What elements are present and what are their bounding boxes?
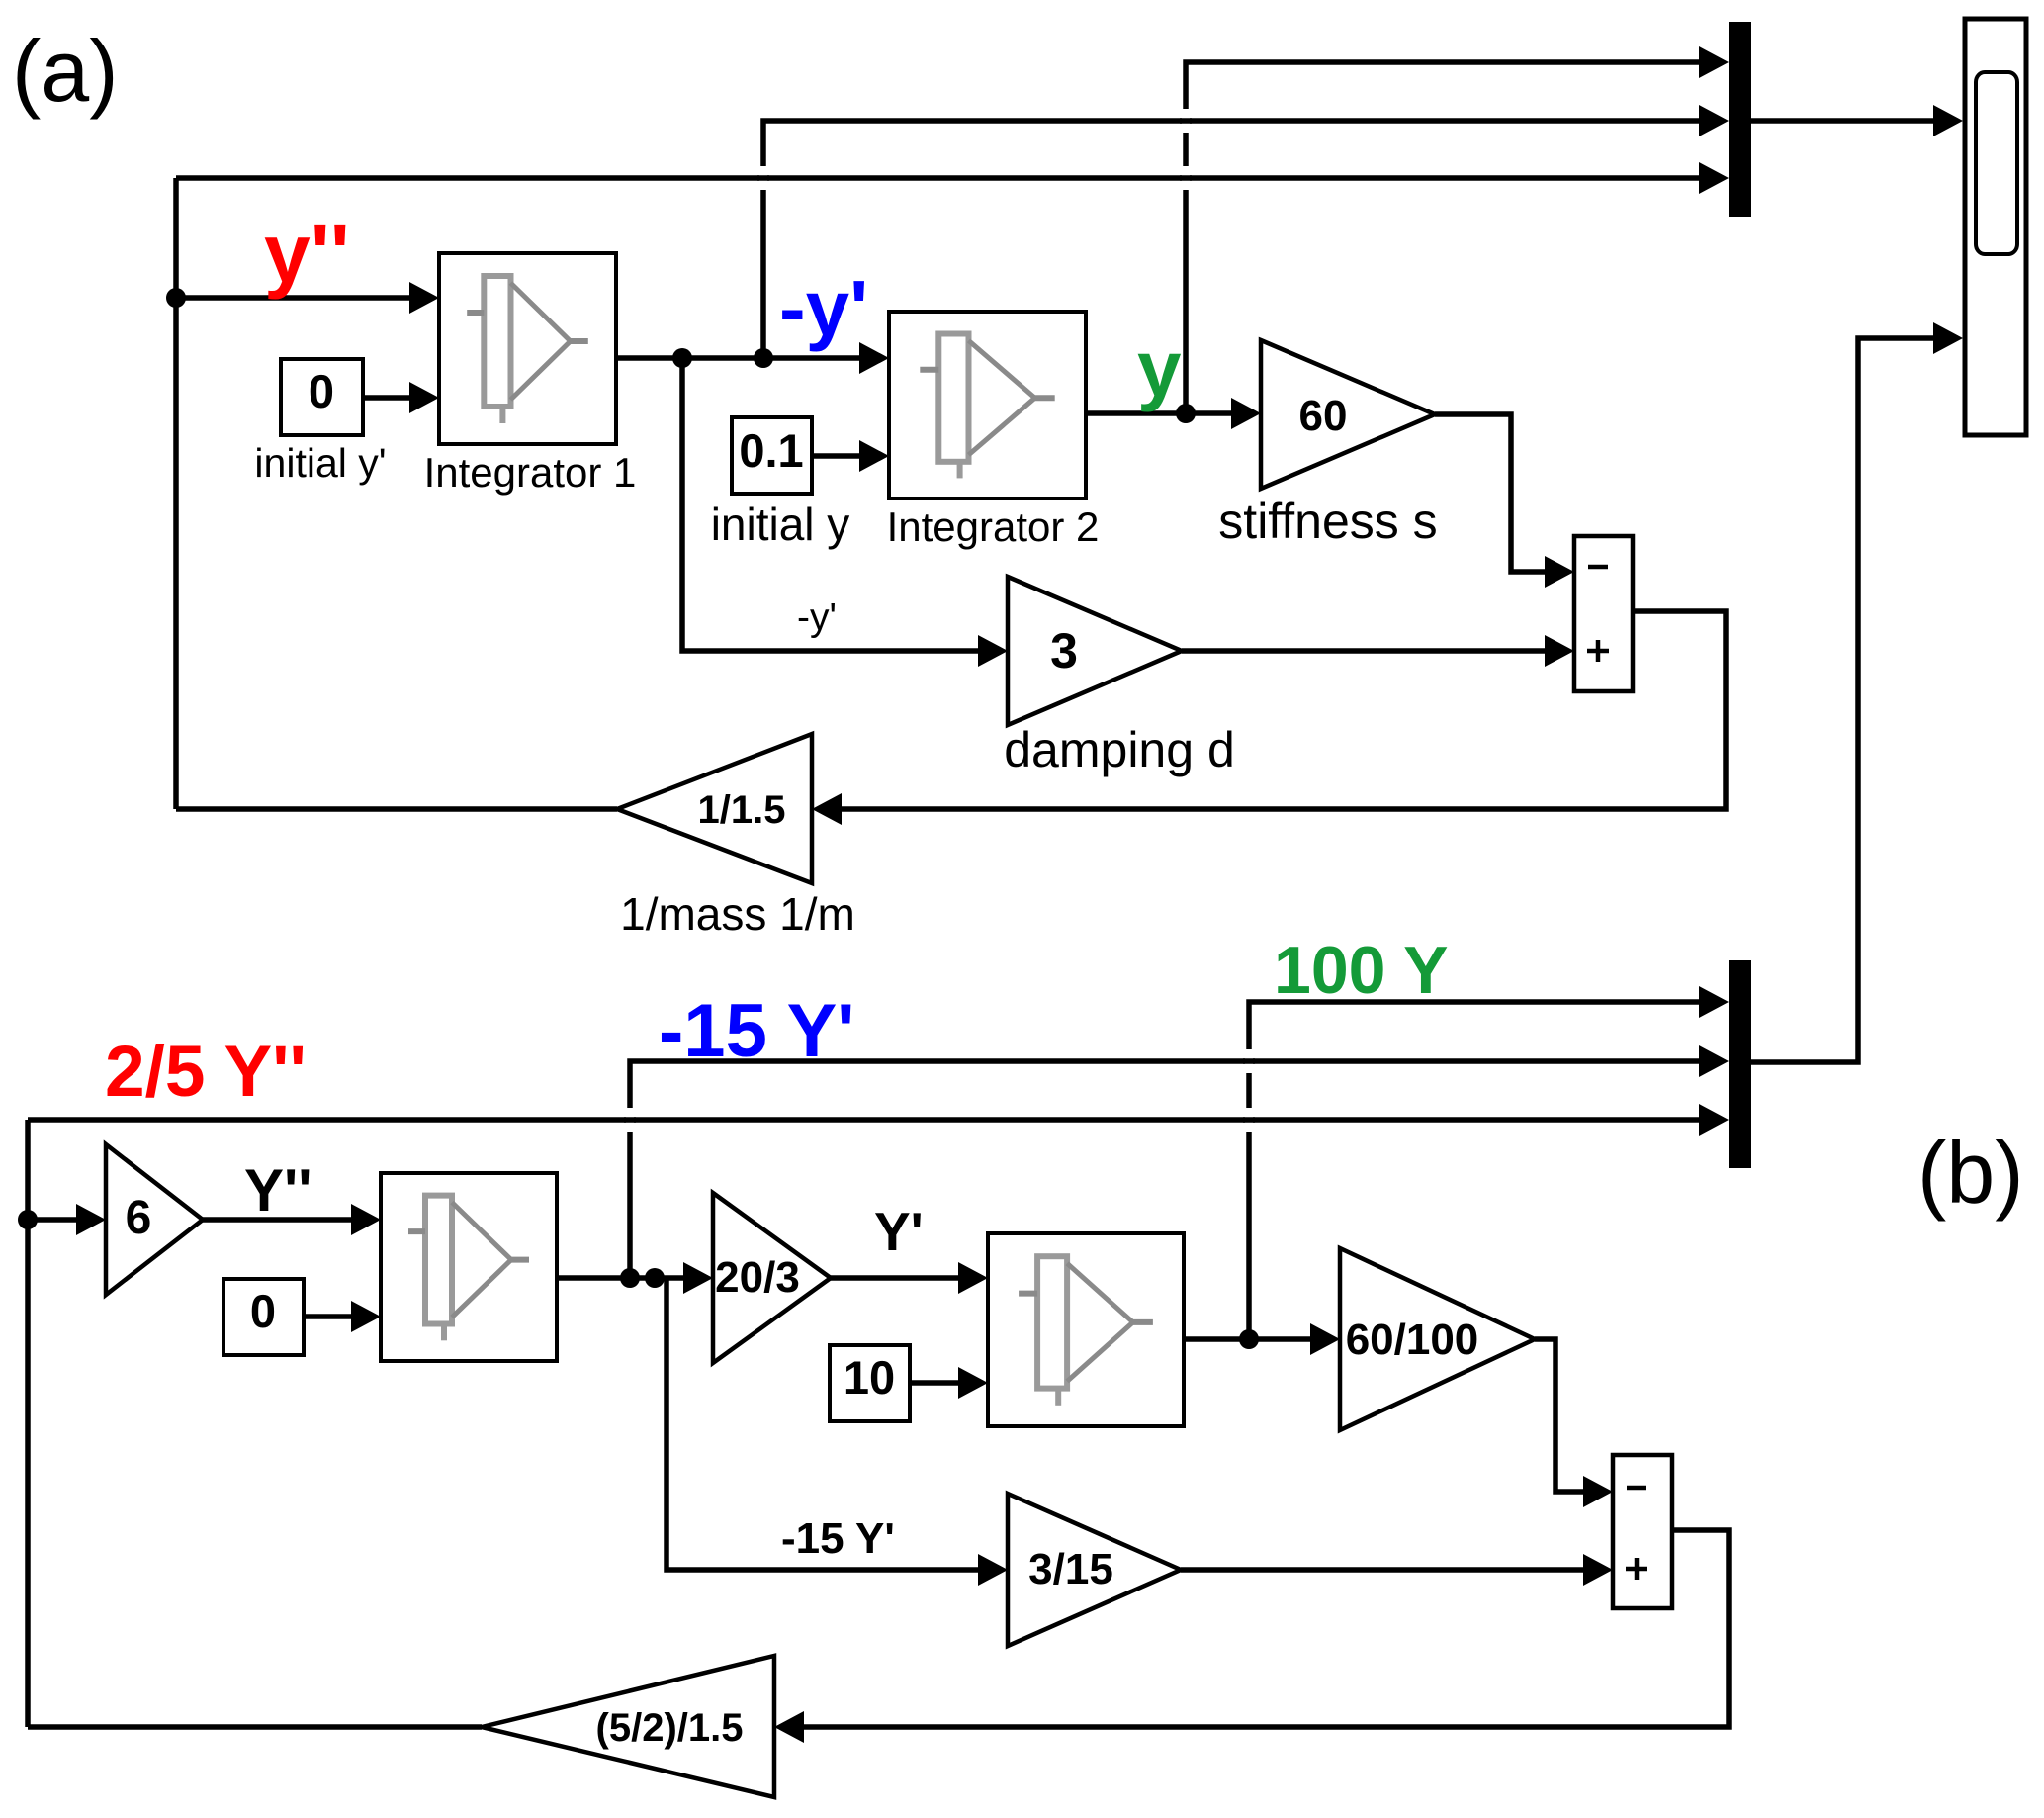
- wire 60 output to sum minus: [1435, 414, 1545, 572]
- svg-text:stiffness s: stiffness s: [1218, 494, 1437, 549]
- constant block 0 (b): [223, 1279, 304, 1355]
- wire 60/100 output to sum (b) minus: [1535, 1339, 1583, 1492]
- svg-text:0: 0: [309, 365, 334, 417]
- mux 1: [1729, 22, 1751, 217]
- gain block 3/15: [1008, 1494, 1181, 1646]
- wire sum (a) out feedback to 1/mass: [842, 611, 1726, 809]
- sum block (a): [1574, 536, 1633, 691]
- svg-text:3/15: 3/15: [1028, 1545, 1113, 1593]
- wire hop -15Y' vertical over 2/5Y'' run: [626, 1108, 634, 1132]
- svg-text:60: 60: [1299, 392, 1348, 440]
- node junction -15Y' (down): [645, 1268, 665, 1288]
- gain block (5/2)/1.5: [482, 1656, 774, 1797]
- svg-text:(b): (b): [1917, 1124, 2024, 1222]
- svg-text:Integrator 1: Integrator 1: [424, 449, 637, 496]
- wire 3 output to sum plus: [1182, 648, 1545, 654]
- wire y up to mux1 in1: [1186, 62, 1699, 413]
- svg-text:initial y': initial y': [254, 440, 386, 486]
- gain block 3 (damping): [1008, 577, 1182, 725]
- wire 1/mass output to left vertical: [176, 806, 617, 812]
- integrator block 4: [988, 1233, 1184, 1426]
- wire Integrator 1 output: [616, 355, 859, 361]
- wire 0.1 to Integrator 2 IC input: [813, 453, 859, 459]
- svg-text:100 Y: 100 Y: [1274, 933, 1448, 1008]
- svg-text:3: 3: [1050, 623, 1078, 679]
- gain block 60 (stiffness): [1261, 340, 1435, 489]
- wire y output of Integrator 2: [1086, 410, 1231, 416]
- wire mux2 output up to scope in2: [1751, 338, 1933, 1062]
- node junction 100Y: [1239, 1329, 1259, 1349]
- svg-text:Y': Y': [874, 1201, 924, 1262]
- wire 2/5 Y'' top run to mux2 in3: [28, 1117, 1699, 1123]
- svg-text:20/3: 20/3: [715, 1253, 800, 1302]
- wire hop 100Y vertical over 2/5Y'' run: [1245, 1108, 1253, 1132]
- wire 0 to Integrator 1 IC input: [362, 395, 409, 401]
- sum block (b): [1613, 1455, 1672, 1608]
- svg-text:0: 0: [250, 1285, 276, 1337]
- svg-text:1/mass 1/m: 1/mass 1/m: [620, 888, 855, 940]
- svg-text:Integrator 2: Integrator 2: [887, 503, 1100, 550]
- constant block 0.1 (initial y): [732, 417, 812, 494]
- wire 6 output to Integrator 3: [203, 1217, 351, 1223]
- wire hop y vertical over mux1 in2 run: [1182, 109, 1190, 133]
- wire sum (b) out feedback to (5/2)/1.5: [804, 1530, 1729, 1727]
- wire hop -y' vertical over y'' top run: [759, 166, 767, 190]
- mux 2: [1729, 960, 1751, 1168]
- wire y'' into Integrator 1: [176, 295, 409, 301]
- svg-text:2/5 Y'': 2/5 Y'': [105, 1032, 307, 1112]
- node junction -y' (to mux): [754, 348, 773, 368]
- gain block 60/100: [1340, 1248, 1535, 1430]
- wire (5/2)/1.5 output to left vertical: [28, 1724, 482, 1730]
- wire 3/15 output to sum (b) plus: [1181, 1567, 1583, 1573]
- svg-text:-y': -y': [797, 596, 837, 639]
- svg-text:(a): (a): [12, 22, 119, 120]
- integrator block Integrator 1: [439, 253, 616, 444]
- wire 10 to Integrator 4 IC input: [910, 1380, 958, 1386]
- wire y'' top run to mux1 in3: [176, 175, 1699, 181]
- wire 0 to Integrator 3 IC input: [304, 1314, 351, 1319]
- integrator block Integrator 2: [889, 312, 1086, 499]
- constant block 10: [830, 1345, 910, 1421]
- scope block: [1965, 19, 2026, 435]
- node junction -y' (to damping): [672, 348, 692, 368]
- gain block 6: [106, 1144, 203, 1295]
- node junction y: [1176, 404, 1196, 423]
- integrator block 3: [381, 1173, 557, 1361]
- svg-text:10: 10: [844, 1351, 895, 1404]
- wire Integrator 4 output: [1184, 1336, 1310, 1342]
- gain block 1/1.5 (1/mass): [617, 734, 812, 883]
- wire Integrator 3 output: [557, 1275, 683, 1281]
- wire hop 100Y vertical over -15Y' run: [1245, 1049, 1253, 1073]
- node junction 2/5 Y'': [18, 1210, 38, 1229]
- wire 20/3 output to Integrator 4: [831, 1275, 958, 1281]
- wire 100Y up to mux2 in1: [1249, 1002, 1699, 1339]
- svg-text:y'': y'': [264, 207, 350, 300]
- wire -y' up to mux1 in2: [763, 121, 1699, 358]
- svg-text:0.1: 0.1: [739, 424, 803, 477]
- wire -y' down to damping gain: [682, 358, 978, 651]
- svg-text:-15 Y': -15 Y': [659, 989, 854, 1073]
- wire hop y vertical over y'' top run: [1182, 166, 1190, 190]
- wire -15Y' up to mux2 in2: [630, 1061, 1699, 1278]
- wire feedback-left vertical (b): [25, 1120, 31, 1727]
- svg-text:-y': -y': [779, 264, 868, 352]
- svg-text:-15 Y': -15 Y': [781, 1514, 895, 1563]
- svg-text:6: 6: [126, 1192, 152, 1244]
- svg-text:damping d: damping d: [1004, 722, 1235, 777]
- svg-text:y: y: [1137, 324, 1182, 412]
- wire mux1 to scope in1: [1751, 118, 1933, 124]
- wire into gain 6: [28, 1217, 76, 1223]
- wire -15Y' down to gain 3/15: [667, 1278, 978, 1570]
- svg-text:1/1.5: 1/1.5: [698, 788, 786, 832]
- gain block 20/3: [713, 1193, 831, 1363]
- constant block 0 (initial y'): [281, 359, 363, 435]
- svg-text:initial y: initial y: [711, 499, 850, 550]
- node junction y'': [166, 288, 186, 308]
- wire feedback-left vertical (a): [173, 178, 179, 809]
- node junction -15Y' (up): [620, 1268, 640, 1288]
- svg-text:60/100: 60/100: [1346, 1316, 1479, 1364]
- svg-text:(5/2)/1.5: (5/2)/1.5: [596, 1706, 744, 1750]
- svg-text:Y'': Y'': [244, 1157, 312, 1224]
